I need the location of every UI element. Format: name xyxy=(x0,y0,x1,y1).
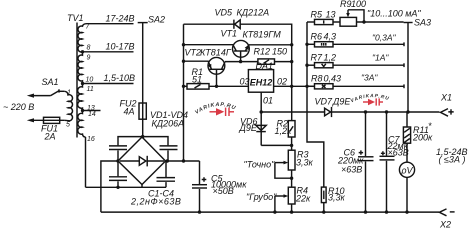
svg-text:R12: R12 xyxy=(254,47,271,57)
svg-text:×50В: ×50В xyxy=(213,186,234,196)
resistor R8 xyxy=(315,84,334,89)
wire rail to R6 xyxy=(307,43,315,45)
svg-text:1,2: 1,2 xyxy=(324,53,337,63)
junction X1 line SA3/R11 xyxy=(406,110,409,113)
svg-text:51: 51 xyxy=(192,75,202,85)
svg-text:9: 9 xyxy=(87,54,91,61)
svg-text:ЕН12: ЕН12 xyxy=(250,78,273,88)
junction pV rail xyxy=(405,210,408,213)
wire row1 to SA3 xyxy=(357,21,404,23)
junction VD6 to R2-R3 xyxy=(290,144,293,147)
wire pin 16 down xyxy=(85,137,87,187)
junction VT2 base xyxy=(215,85,218,88)
svg-text:"Грубо": "Грубо" xyxy=(246,192,277,202)
svg-text:"0,3А": "0,3А" xyxy=(372,33,397,43)
fuse FU1 xyxy=(27,117,65,123)
terminal X2 xyxy=(439,209,454,216)
wire R4 bottom xyxy=(291,204,293,212)
watermark 1 varicap symbol xyxy=(210,108,235,116)
svg-text:200к: 200к xyxy=(412,133,433,143)
svg-text:4,3: 4,3 xyxy=(324,32,337,42)
diode VD5 xyxy=(234,20,240,29)
svg-text:01: 01 xyxy=(263,96,273,106)
wire tap 10-17V xyxy=(83,51,134,53)
resistor R2 xyxy=(288,121,295,137)
svg-text:SA2: SA2 xyxy=(148,14,165,24)
svg-text:13: 13 xyxy=(326,10,336,20)
svg-text:×63В: ×63В xyxy=(388,147,409,157)
svg-text:8: 8 xyxy=(87,45,91,52)
wire tap 17-24V xyxy=(87,23,134,25)
wire shunt rail xyxy=(307,22,324,187)
svg-text:02: 02 xyxy=(277,77,287,87)
wire SA1 to pin 1 xyxy=(59,90,65,92)
wire X1 output line xyxy=(261,111,324,113)
transformer TV1 core xyxy=(76,23,78,138)
junction column VT1 xyxy=(290,43,293,46)
svg-text:VT1: VT1 xyxy=(221,28,238,38)
row2 end contact xyxy=(403,42,405,46)
resistor R3 xyxy=(288,150,295,170)
svg-text:7: 7 xyxy=(86,24,91,31)
junction pins 8,9 xyxy=(81,50,84,53)
svg-text:R7: R7 xyxy=(311,53,323,63)
svg-text:DA1: DA1 xyxy=(256,61,274,71)
switch SA2 xyxy=(138,23,148,137)
resistor R1 xyxy=(187,84,209,90)
svg-text:R9: R9 xyxy=(340,0,352,9)
capacitor C7 xyxy=(380,112,395,212)
wire R12 to column xyxy=(275,61,292,63)
svg-text:5: 5 xyxy=(66,122,70,129)
wire bridge AC bottom line xyxy=(86,186,167,188)
svg-text:VARIKAP.RU: VARIKAP.RU xyxy=(194,102,237,116)
svg-text:22к: 22к xyxy=(295,193,311,203)
svg-text:2,2нФ×63В: 2,2нФ×63В xyxy=(130,196,181,206)
svg-text:КТ819ГМ: КТ819ГМ xyxy=(243,30,282,40)
wire R10 bottom xyxy=(323,203,325,213)
transistor VT1 xyxy=(233,40,250,61)
wire row4 xyxy=(333,85,404,87)
svg-text:Д9Е: Д9Е xyxy=(332,97,351,107)
wire VT2 collector to R12 xyxy=(225,61,258,63)
row3 end contact xyxy=(403,63,405,67)
transformer TV1 secondary winding 7-8 xyxy=(78,24,87,52)
transistor VT2 xyxy=(208,57,225,86)
svg-text:1,2к: 1,2к xyxy=(275,126,293,136)
junction X1 line C6 xyxy=(364,110,367,113)
svg-text:SA3: SA3 xyxy=(414,17,431,27)
svg-text:R8: R8 xyxy=(311,73,323,83)
junction bridge top vertex xyxy=(141,135,144,138)
svg-text:"3А": "3А" xyxy=(361,72,378,82)
R3 wiper arrow xyxy=(275,161,292,178)
svg-text:14: 14 xyxy=(88,111,96,118)
junction X1 line C7 xyxy=(385,110,388,113)
junction C6 rail xyxy=(364,210,367,213)
resistor R6 xyxy=(315,42,334,47)
svg-text:Х1: Х1 xyxy=(440,93,452,103)
svg-text:VD5: VD5 xyxy=(215,7,234,17)
diode VD6 xyxy=(256,112,292,145)
svg-text:11: 11 xyxy=(87,86,94,93)
wire tap 1,5-10V xyxy=(83,83,134,85)
fuse FU2 xyxy=(139,103,146,119)
svg-text:"1А": "1А" xyxy=(372,53,389,63)
junction ADJ node xyxy=(260,110,263,113)
svg-text:VD7: VD7 xyxy=(315,97,334,107)
junction R4 wiper bottom xyxy=(273,210,276,213)
transformer TV1 secondary winding 14-16 xyxy=(78,111,86,138)
switch SA3 xyxy=(404,23,413,113)
svg-text:100: 100 xyxy=(351,0,366,9)
watermark 2 varicap symbol xyxy=(363,98,383,105)
wire rail to R8 xyxy=(307,85,315,87)
junction C3 bottom xyxy=(116,186,119,189)
svg-text:16: 16 xyxy=(87,136,95,143)
junction R10 rail xyxy=(322,210,325,213)
wire plus rail left vertical xyxy=(183,24,185,161)
bridge inner diode xyxy=(120,156,164,167)
junction R9 right xyxy=(362,20,365,23)
svg-text:10-17В: 10-17В xyxy=(106,41,135,51)
svg-text:TV1: TV1 xyxy=(67,13,84,23)
svg-text:SA1: SA1 xyxy=(42,77,59,87)
wire VD7 to X1 xyxy=(332,111,440,113)
resistor R7 xyxy=(315,63,334,68)
junction column R12 xyxy=(290,60,293,63)
potentiometer R9 xyxy=(340,10,364,26)
svg-text:КД206А: КД206А xyxy=(152,118,185,128)
svg-text:4А: 4А xyxy=(124,107,135,117)
wire bottom minus rail xyxy=(101,211,439,213)
svg-text:R5: R5 xyxy=(311,10,323,20)
voltmeter pV xyxy=(399,143,414,212)
wire rail to R1 xyxy=(184,85,188,87)
junction rail VT1 collector xyxy=(182,43,185,46)
resistor R12 xyxy=(258,59,275,64)
resistor R11 xyxy=(403,112,410,143)
junction VT1 base xyxy=(239,60,242,63)
wire bridge plus output xyxy=(166,160,200,162)
svg-text:"Точно": "Точно" xyxy=(244,160,276,170)
svg-text:КТ814Г: КТ814Г xyxy=(200,47,232,57)
svg-text:Х2: Х2 xyxy=(439,219,451,229)
wire row1 to R5 xyxy=(307,21,315,23)
wire VT1 collector to column xyxy=(249,44,292,46)
junction rail VT2 left xyxy=(182,60,185,63)
wire rail to R7 xyxy=(307,64,315,66)
wire bridge top caps bus xyxy=(118,137,168,146)
junction caps right at plus wire xyxy=(166,159,169,162)
junction column 02 xyxy=(290,85,293,88)
R4 wiper arrow xyxy=(275,194,288,212)
svg-text:ρV: ρV xyxy=(400,165,413,175)
wire R1 to DA1 pin 03 xyxy=(209,85,248,87)
svg-text:Д9Е: Д9Е xyxy=(239,123,258,133)
resistor R4 xyxy=(288,187,295,204)
wire VT2 left lead xyxy=(184,61,212,69)
transformer TV1 secondary winding 11-13 xyxy=(78,84,83,111)
svg-text:2А: 2А xyxy=(44,131,56,141)
junction pins 10,11 xyxy=(81,82,84,85)
capacitor C3 (bottom-left) xyxy=(109,161,127,187)
svg-text:~ 220 В: ~ 220 В xyxy=(3,102,34,112)
bridge rectifier VD1-VD4 diamond xyxy=(118,137,166,185)
junction rail row4 xyxy=(305,85,308,88)
svg-text:КД212А: КД212А xyxy=(237,7,270,17)
wire R3 to R4 xyxy=(291,170,293,187)
svg-text:R6: R6 xyxy=(311,32,323,42)
regulator DA1 xyxy=(248,70,273,93)
junction pins 13,14 xyxy=(81,109,84,112)
junction rail row2 xyxy=(305,43,308,46)
wire left vertex to minus drop xyxy=(101,161,118,212)
wire tap pins 13,14 xyxy=(83,110,101,112)
wire bridge bottom vertex stub xyxy=(141,184,143,187)
switch SA1 xyxy=(27,89,59,97)
junction rail row3 xyxy=(305,63,308,66)
svg-text:×63В: ×63В xyxy=(341,165,362,175)
wire VD5 to R2 column xyxy=(240,24,292,120)
svg-text:( ≤3А ): ( ≤3А ) xyxy=(439,155,466,165)
svg-text:10: 10 xyxy=(86,77,94,84)
wire R2 to R3 xyxy=(291,137,293,150)
capacitor C5 xyxy=(192,161,207,212)
wire top line to VD5 xyxy=(184,23,234,25)
svg-text:0,43: 0,43 xyxy=(324,73,342,83)
wire DA1 pin 01 down xyxy=(260,92,262,112)
svg-text:150: 150 xyxy=(272,47,287,57)
wire row2 xyxy=(333,43,404,45)
wire DA1 pin 02 xyxy=(274,85,315,87)
svg-text:1,5-10В: 1,5-10В xyxy=(104,73,136,83)
svg-text:VT2: VT2 xyxy=(185,47,202,57)
diode VD7 xyxy=(325,107,332,117)
terminal X1 xyxy=(441,109,454,117)
junction C7 rail xyxy=(385,210,388,213)
row4 end contact xyxy=(403,84,405,88)
wire row3 xyxy=(333,64,404,66)
transformer TV1 primary winding xyxy=(64,91,72,121)
junction R3 wiper xyxy=(290,177,293,180)
capacitor C2 (top-right) xyxy=(160,146,178,161)
capacitor C1 (top-left) xyxy=(109,146,127,161)
resistor R5 xyxy=(315,19,334,24)
transformer TV1 secondary winding 9-10 xyxy=(78,52,83,84)
junction R4 bottom rail xyxy=(290,210,293,213)
svg-text:17-24В: 17-24В xyxy=(106,13,135,23)
wire R5 to R9 xyxy=(333,21,340,23)
capacitor C4 (bottom-right) xyxy=(157,161,176,187)
svg-text:*: * xyxy=(428,121,432,131)
svg-text:03: 03 xyxy=(240,77,250,87)
svg-text:3,3к: 3,3к xyxy=(296,157,314,167)
junction rail R1 xyxy=(182,85,185,88)
junction C5 bottom xyxy=(198,210,201,213)
junction plus rail xyxy=(182,159,185,162)
junction bridge left vertex xyxy=(116,159,119,162)
resistor R10 xyxy=(321,187,326,203)
svg-text:3,3к: 3,3к xyxy=(328,193,346,203)
capacitor C6 xyxy=(358,112,374,212)
wire VT1 left lead xyxy=(184,45,237,51)
svg-text:1: 1 xyxy=(67,89,71,96)
